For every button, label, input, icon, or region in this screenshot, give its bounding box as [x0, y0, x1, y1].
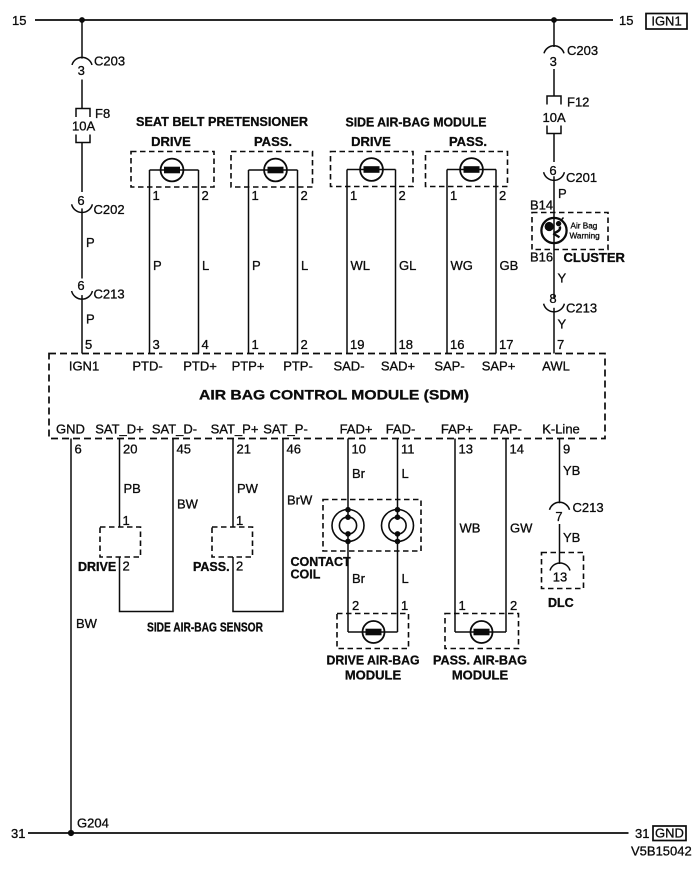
- wire: pretensioner pass pin1 to SDM pin 1, colour P: [248, 170, 250, 354]
- svg-text:GW: GW: [510, 521, 533, 536]
- svg-text:SEAT BELT PRETENSIONER: SEAT BELT PRETENSIONER: [136, 114, 309, 129]
- svg-text:1: 1: [459, 598, 466, 613]
- svg-text:C202: C202: [94, 202, 125, 217]
- fuse F12 10A: [543, 95, 590, 134]
- SDM module box (AIR BAG CONTROL MODULE): [49, 354, 605, 439]
- wire: side air-bag pass pin2 to SDM pin 17, colour GB: [495, 170, 497, 354]
- connector C201: [544, 163, 597, 185]
- wire: SDM pin 13 FAP+ to pass air-bag module pin 1, colour WB: [454, 439, 456, 633]
- svg-text:SAT_D+: SAT_D+: [95, 422, 144, 437]
- svg-text:C203: C203: [567, 43, 598, 58]
- svg-text:CLUSTER: CLUSTER: [564, 250, 626, 265]
- svg-text:B14: B14: [530, 198, 553, 213]
- svg-text:P: P: [153, 258, 162, 273]
- svg-text:2: 2: [202, 188, 209, 203]
- svg-text:SAT_D-: SAT_D-: [152, 422, 197, 437]
- wire: SDM pin 10 FAD+ to contact coil, colour Br: [347, 439, 349, 510]
- svg-text:V5B15042: V5B15042: [631, 844, 692, 859]
- connector C213 right: [544, 291, 597, 316]
- svg-text:BrW: BrW: [287, 493, 313, 508]
- squib (pretensioner pass): [249, 159, 298, 182]
- svg-text:WL: WL: [351, 258, 371, 273]
- ground rail 31 (bottom bus): [28, 832, 629, 834]
- wire: pass sensor pin2 loop to SDM pin 46, colour BrW: [233, 439, 283, 612]
- wire: cluster to C213 right, colour Y: [553, 244, 555, 300]
- svg-text:2: 2: [301, 337, 308, 352]
- wire: C213 to SDM pin 7, colour Y: [553, 308, 555, 354]
- svg-text:MODULE: MODULE: [345, 668, 402, 683]
- svg-text:YB: YB: [563, 530, 580, 545]
- connector C202: [72, 193, 125, 217]
- svg-text:20: 20: [123, 442, 137, 457]
- junction dot left on rail 15: [79, 17, 85, 23]
- svg-text:7: 7: [557, 337, 564, 352]
- svg-text:3: 3: [550, 54, 557, 69]
- svg-text:Y: Y: [558, 317, 567, 332]
- svg-text:WB: WB: [460, 521, 481, 536]
- svg-text:6: 6: [77, 193, 84, 208]
- svg-text:10A: 10A: [543, 110, 566, 125]
- svg-text:F8: F8: [95, 106, 110, 121]
- svg-text:PTP+: PTP+: [232, 359, 265, 374]
- net box GND: [653, 826, 686, 841]
- svg-text:B16: B16: [530, 250, 553, 265]
- svg-text:GB: GB: [500, 258, 519, 273]
- connector C213 left: [72, 278, 125, 302]
- svg-text:IGN1: IGN1: [651, 14, 681, 29]
- power rail 15 (top bus): [35, 19, 613, 21]
- svg-text:YB: YB: [563, 463, 580, 478]
- svg-text:P: P: [86, 312, 95, 327]
- svg-text:BW: BW: [76, 616, 98, 631]
- svg-text:6: 6: [77, 278, 84, 293]
- wire: SDM pin 14 FAP- to pass air-bag module pin 2, colour GW: [505, 439, 507, 633]
- squib (pass air-bag module): [455, 621, 506, 643]
- svg-text:17: 17: [499, 337, 513, 352]
- wire: SDM pin 9 K-Line to C213, colour YB: [559, 439, 561, 504]
- svg-text:DRIVE: DRIVE: [351, 134, 391, 149]
- svg-text:FAP+: FAP+: [441, 422, 473, 437]
- svg-text:16: 16: [450, 337, 464, 352]
- wire: SDM pin 21 SAT_P+ down, colour PW: [232, 439, 234, 528]
- svg-text:10A: 10A: [72, 119, 95, 134]
- wire: pretensioner drive pin1 to SDM pin 3, colour P: [149, 170, 151, 354]
- wire: C202 to C213, colour P: [81, 208, 83, 278]
- wire: side air-bag drive pin2 to SDM pin 18, colour GL: [395, 170, 397, 354]
- svg-text:MODULE: MODULE: [452, 668, 509, 683]
- svg-text:GND: GND: [56, 422, 85, 437]
- svg-text:6: 6: [75, 442, 82, 457]
- svg-text:13: 13: [459, 442, 473, 457]
- svg-text:PASS.: PASS.: [193, 560, 230, 574]
- pass air-bag module box: [445, 614, 519, 649]
- svg-text:G204: G204: [77, 816, 109, 831]
- wire: SDM pin 20 SAT_D+ down, colour PB: [119, 439, 121, 528]
- svg-text:BW: BW: [177, 497, 199, 512]
- wire: F8 to C202: [81, 143, 83, 193]
- svg-text:1: 1: [252, 337, 259, 352]
- svg-text:2: 2: [499, 188, 506, 203]
- wire: rail to C203 right: [553, 20, 555, 47]
- svg-text:1: 1: [153, 188, 160, 203]
- svg-text:Br: Br: [352, 466, 366, 481]
- connector C203 right: [544, 43, 598, 69]
- svg-text:PASS.: PASS.: [449, 134, 487, 149]
- svg-text:1: 1: [401, 598, 408, 613]
- wire: coil to drive air-bag module pin 1, colour L: [397, 542, 399, 633]
- squib (side air-bag drive): [347, 158, 396, 181]
- svg-text:SAP+: SAP+: [482, 359, 516, 374]
- svg-text:FAD+: FAD+: [340, 422, 373, 437]
- net box IGN1: [646, 14, 687, 30]
- wire: F12 to C201: [553, 134, 555, 163]
- svg-text:FAP-: FAP-: [493, 422, 522, 437]
- svg-text:DRIVE: DRIVE: [151, 134, 191, 149]
- side air-bag module drive box: [331, 152, 414, 187]
- svg-text:PASS.: PASS.: [254, 134, 292, 149]
- svg-text:2: 2: [301, 188, 308, 203]
- svg-text:PTP-: PTP-: [283, 359, 313, 374]
- wire: C213 to SDM pin 5, colour P: [81, 295, 83, 353]
- svg-text:31: 31: [635, 826, 649, 841]
- air bag warning lamp: [541, 218, 566, 244]
- connector pin 13 (DLC): [550, 563, 570, 585]
- svg-text:Warning: Warning: [570, 232, 601, 241]
- connector C203 left: [72, 54, 125, 79]
- side air-bag module pass box: [426, 152, 508, 187]
- svg-text:SIDE AIR-BAG SENSOR: SIDE AIR-BAG SENSOR: [147, 621, 263, 635]
- wire: C201 to cluster, colour P: [553, 176, 555, 217]
- svg-text:C213: C213: [566, 301, 597, 316]
- svg-text:4: 4: [202, 337, 209, 352]
- wire: coil to drive air-bag module pin 2, colour Br: [347, 542, 349, 633]
- contact coil rotary coupler left: [332, 507, 364, 544]
- svg-text:19: 19: [350, 337, 364, 352]
- svg-text:6: 6: [549, 163, 556, 178]
- svg-text:SAT_P+: SAT_P+: [211, 422, 259, 437]
- svg-text:F12: F12: [567, 95, 589, 110]
- svg-text:COIL: COIL: [291, 568, 321, 582]
- svg-text:PW: PW: [237, 481, 259, 496]
- svg-text:SAD+: SAD+: [381, 359, 415, 374]
- svg-text:P: P: [252, 258, 261, 273]
- svg-text:C213: C213: [573, 500, 604, 515]
- wire: side air-bag pass pin1 to SDM pin 16, colour WG: [446, 170, 448, 354]
- svg-text:21: 21: [237, 442, 251, 457]
- svg-text:3: 3: [153, 337, 160, 352]
- seat belt pretensioner drive box: [131, 152, 214, 188]
- svg-text:P: P: [558, 186, 567, 201]
- svg-text:31: 31: [11, 826, 25, 841]
- wire: pretensioner drive pin2 to SDM pin 4, colour L: [198, 170, 200, 354]
- wire: SDM pin 11 FAD- to contact coil, colour L: [397, 439, 399, 510]
- svg-text:2: 2: [123, 559, 130, 574]
- svg-text:1: 1: [123, 513, 130, 528]
- fuse F8 10A: [72, 106, 110, 143]
- svg-text:AWL: AWL: [542, 359, 570, 374]
- svg-text:1: 1: [450, 188, 457, 203]
- svg-text:PB: PB: [124, 481, 141, 496]
- svg-text:GL: GL: [399, 258, 416, 273]
- svg-text:15: 15: [619, 13, 633, 28]
- svg-text:2: 2: [510, 598, 517, 613]
- contact coil rotary coupler right: [382, 507, 414, 544]
- svg-text:DRIVE AIR-BAG: DRIVE AIR-BAG: [327, 653, 420, 668]
- svg-text:L: L: [402, 571, 409, 586]
- seat belt pretensioner pass box: [231, 152, 313, 188]
- squib (pretensioner drive): [150, 159, 199, 182]
- svg-text:2: 2: [352, 598, 359, 613]
- svg-text:IGN1: IGN1: [69, 359, 99, 374]
- wire: C203 to fuse F12: [553, 69, 555, 96]
- svg-text:15: 15: [12, 13, 26, 28]
- svg-text:DRIVE: DRIVE: [78, 560, 116, 574]
- cluster dashed box: [532, 213, 608, 250]
- svg-text:18: 18: [399, 337, 413, 352]
- junction dot G204: [68, 830, 74, 836]
- svg-text:FAD-: FAD-: [386, 422, 416, 437]
- svg-text:C201: C201: [566, 170, 597, 185]
- svg-text:AIR BAG CONTROL MODULE (SDM): AIR BAG CONTROL MODULE (SDM): [199, 387, 469, 403]
- svg-text:8: 8: [549, 291, 556, 306]
- contact coil dashed box: [323, 500, 421, 552]
- wire: C203 to fuse F8: [81, 80, 83, 109]
- svg-text:10: 10: [352, 442, 366, 457]
- svg-text:1: 1: [236, 513, 243, 528]
- svg-text:SIDE AIR-BAG MODULE: SIDE AIR-BAG MODULE: [346, 115, 487, 130]
- svg-text:DLC: DLC: [548, 596, 574, 610]
- svg-text:9: 9: [563, 442, 570, 457]
- svg-text:45: 45: [177, 442, 191, 457]
- svg-text:Air Bag: Air Bag: [571, 222, 598, 231]
- wire: pretensioner pass pin2 to SDM pin 2, colour L: [297, 170, 299, 354]
- side air-bag sensor drive box: [100, 527, 141, 557]
- svg-text:L: L: [402, 466, 409, 481]
- svg-text:5: 5: [85, 337, 92, 352]
- svg-text:7: 7: [555, 509, 562, 524]
- svg-text:1: 1: [350, 188, 357, 203]
- svg-text:PASS. AIR-BAG: PASS. AIR-BAG: [433, 653, 527, 668]
- svg-text:C203: C203: [94, 54, 125, 69]
- svg-text:K-Line: K-Line: [542, 422, 580, 437]
- wire: SDM GND pin 6 to ground rail, colour BW: [70, 439, 72, 834]
- junction dot right on rail 15: [551, 17, 557, 23]
- svg-text:2: 2: [399, 188, 406, 203]
- svg-text:SAD-: SAD-: [333, 359, 364, 374]
- svg-text:11: 11: [401, 442, 415, 457]
- svg-text:Br: Br: [352, 571, 366, 586]
- svg-text:46: 46: [287, 442, 301, 457]
- wire: drive sensor pin2 loop to SDM pin 45, colour BW: [120, 439, 174, 612]
- svg-text:L: L: [301, 258, 308, 273]
- svg-text:3: 3: [78, 63, 85, 78]
- svg-text:GND: GND: [655, 826, 684, 841]
- svg-text:L: L: [202, 258, 209, 273]
- svg-text:1: 1: [252, 188, 259, 203]
- connector C213 (K-Line): [550, 500, 604, 524]
- svg-text:P: P: [86, 235, 95, 250]
- svg-text:Y: Y: [558, 271, 567, 286]
- svg-text:WG: WG: [451, 258, 473, 273]
- svg-text:2: 2: [236, 559, 243, 574]
- svg-text:SAP-: SAP-: [434, 359, 464, 374]
- svg-text:14: 14: [510, 442, 524, 457]
- svg-text:SAT_P-: SAT_P-: [263, 422, 308, 437]
- squib (drive air-bag module): [348, 621, 398, 643]
- DLC dashed box: [542, 553, 584, 589]
- drive air-bag module box: [337, 614, 409, 649]
- svg-text:C213: C213: [94, 287, 125, 302]
- squib (side air-bag pass): [447, 158, 496, 181]
- wire: side air-bag drive pin1 to SDM pin 19, colour WL: [346, 170, 348, 354]
- svg-text:13: 13: [553, 570, 567, 585]
- wire: rail to C203 left: [81, 20, 83, 59]
- side air-bag sensor pass box: [212, 527, 253, 557]
- svg-text:PTD+: PTD+: [183, 359, 217, 374]
- svg-text:PTD-: PTD-: [132, 359, 162, 374]
- wire: C213 to DLC, colour YB: [559, 524, 561, 564]
